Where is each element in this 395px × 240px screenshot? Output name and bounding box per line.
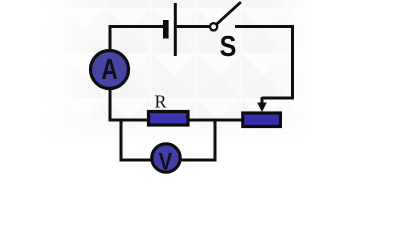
- background texture: [40, 0, 312, 143]
- wire: battery to switch pivot: [177, 25, 210, 28]
- wire: horizontal to wiper: [262, 97, 294, 100]
- wire: voltmeter branch left vertical: [120, 120, 123, 162]
- rheostat wiper arrowhead: [257, 103, 267, 113]
- wire: voltmeter branch bottom right horizontal: [180, 159, 217, 162]
- wire: voltmeter branch right vertical: [214, 119, 217, 162]
- main bottom wire: left corner to rheostat: [110, 119, 243, 122]
- battery cell: short thick negative plate: [163, 20, 169, 39]
- rheostat wiper arrow stem: [261, 97, 264, 104]
- wire: top-left horizontal from ammeter branch to battery: [109, 25, 164, 28]
- wire: right vertical down: [291, 25, 294, 100]
- voltmeter V body: [152, 144, 180, 172]
- wire: left vertical through ammeter: [109, 25, 112, 122]
- ammeter label A: [101, 52, 118, 85]
- wire: voltmeter branch bottom left horizontal: [120, 159, 154, 162]
- svg-text:R: R: [155, 92, 167, 112]
- svg-text:V: V: [159, 148, 172, 175]
- wire: switch to top-right corner: [235, 25, 294, 28]
- svg-text:S: S: [220, 31, 237, 63]
- battery cell: long thin positive plate: [174, 3, 177, 56]
- svg-text:A: A: [101, 52, 118, 85]
- rheostat body: [243, 113, 281, 127]
- switch label S: [220, 31, 237, 63]
- switch S pivot circle: [210, 23, 217, 30]
- switch S blade (open): [217, 3, 240, 24]
- voltmeter label V: [159, 148, 172, 175]
- ammeter A body: [91, 51, 129, 89]
- resistor R body: [149, 112, 189, 126]
